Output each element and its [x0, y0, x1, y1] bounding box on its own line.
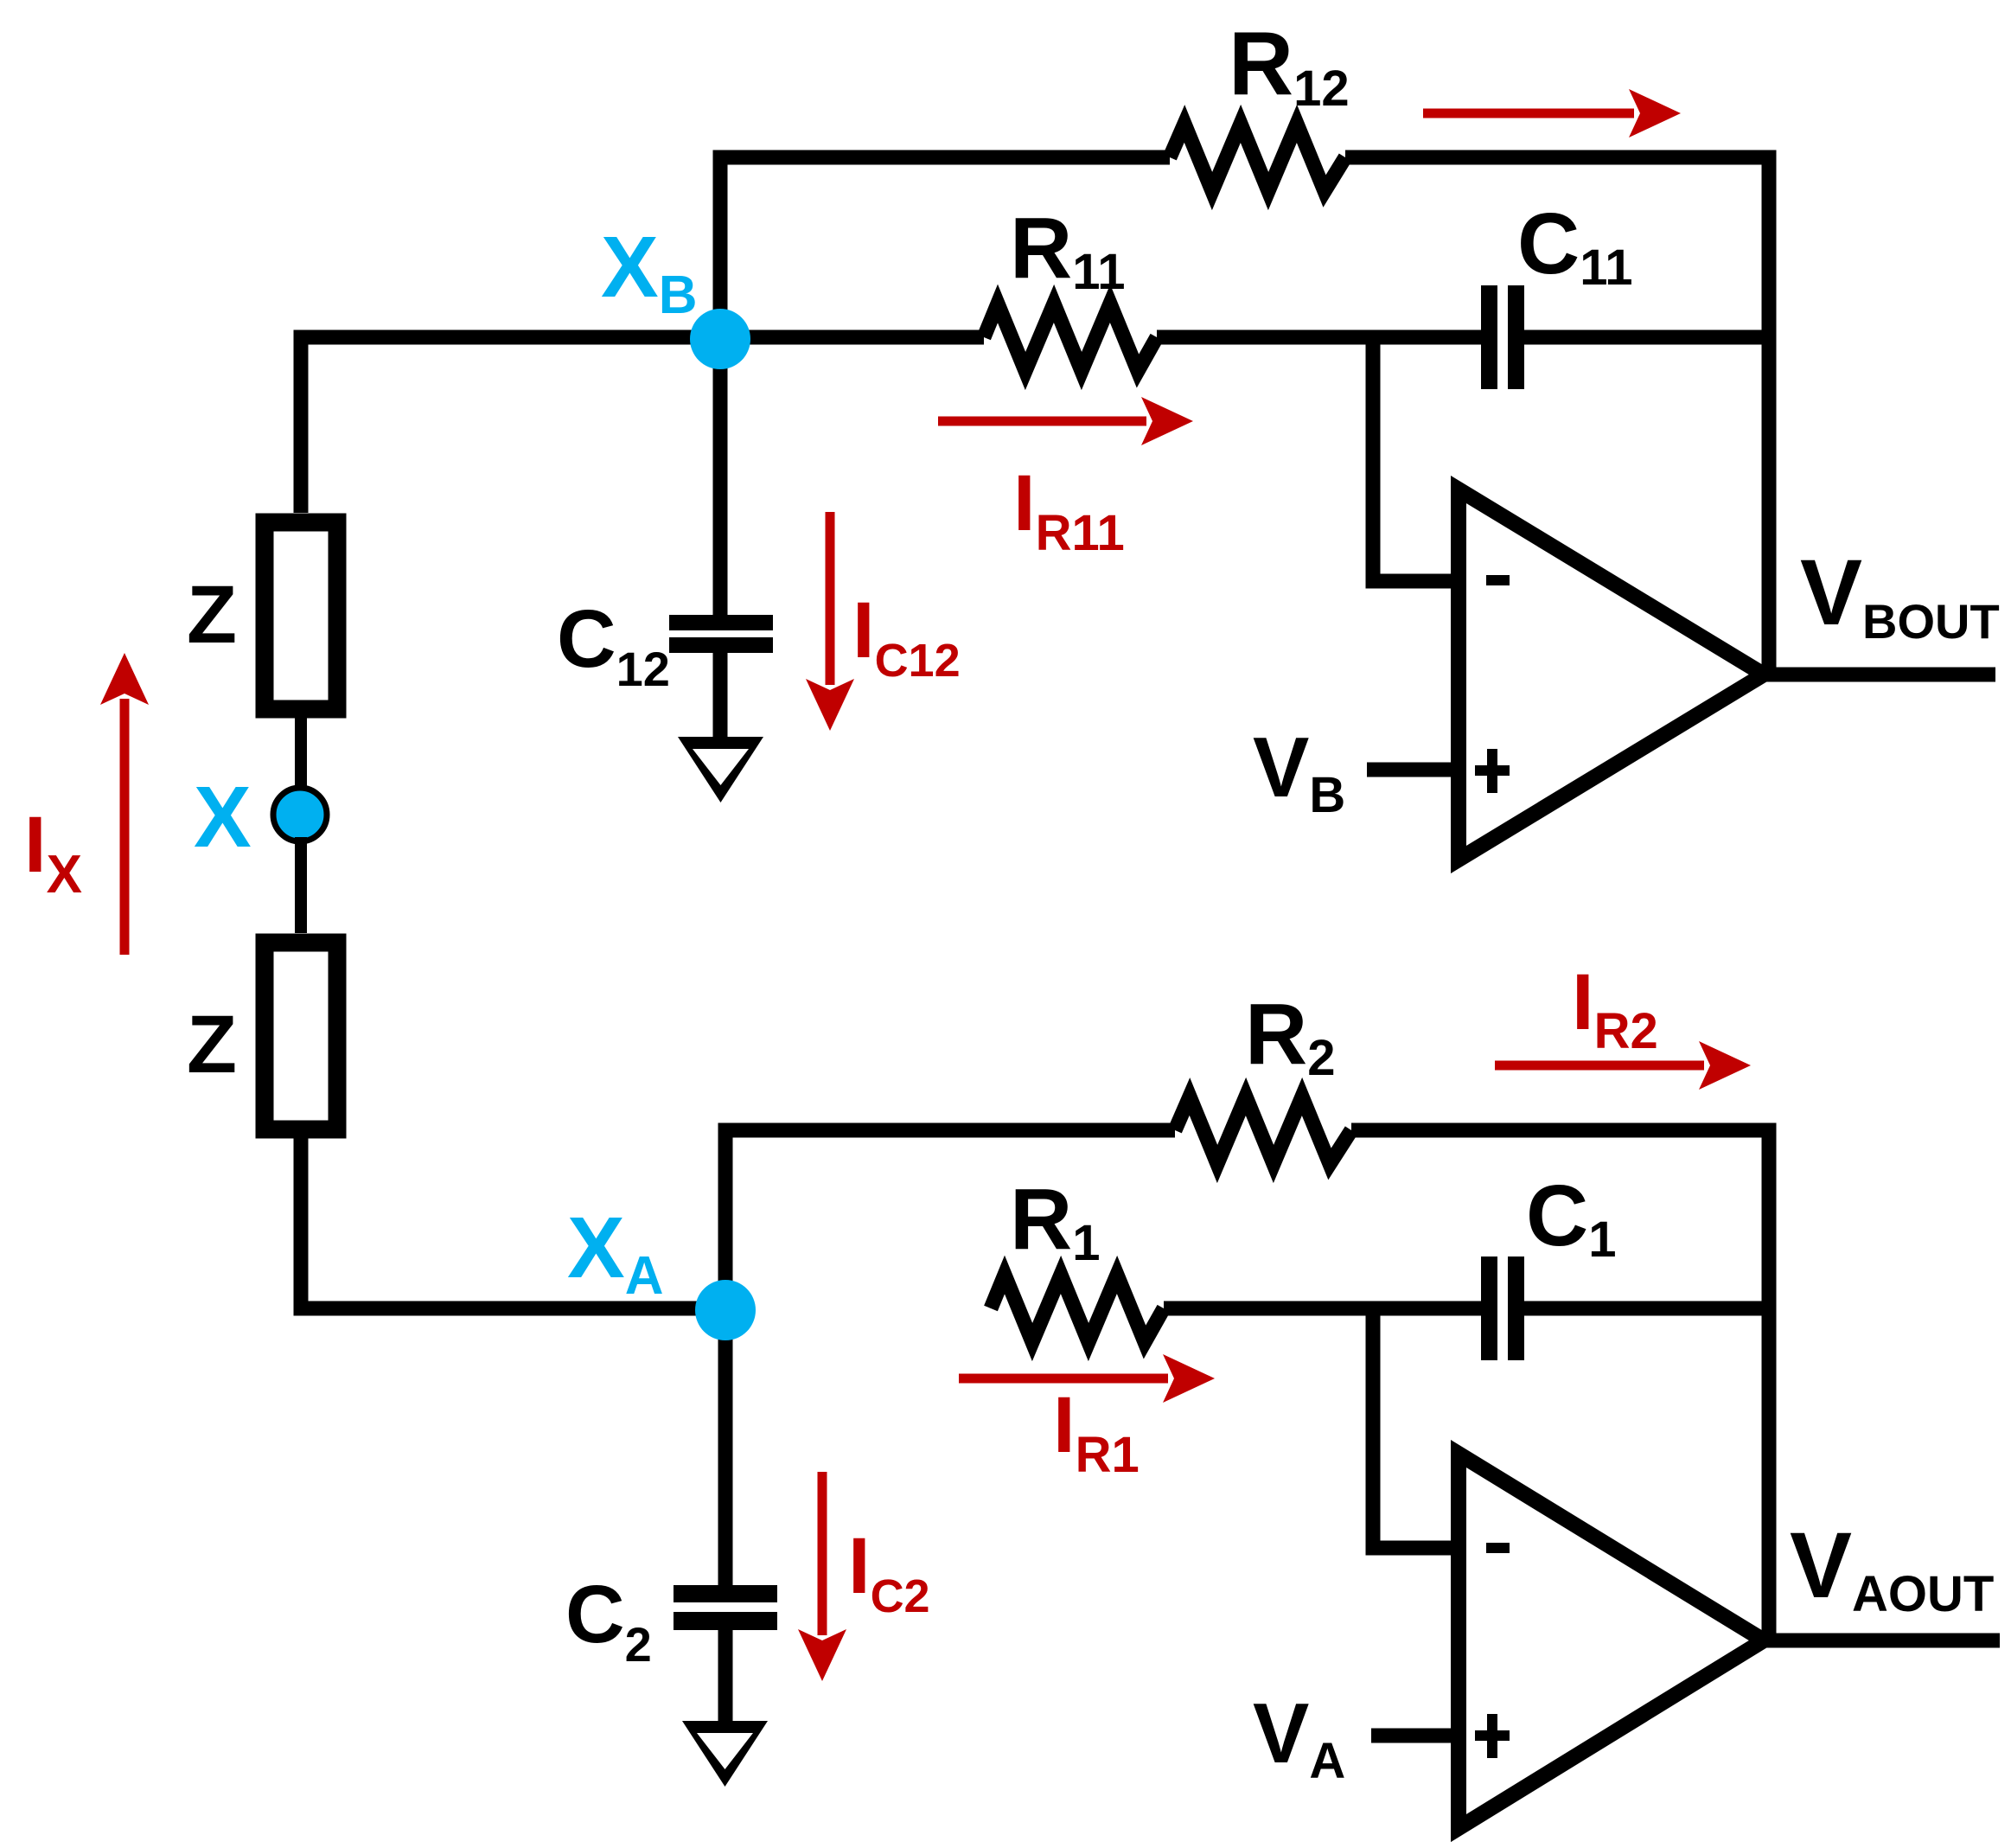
svg-text:Z: Z — [187, 569, 237, 661]
label C11 — [1517, 195, 1633, 296]
wire C1 to right rail — [1524, 1301, 1769, 1316]
svg-text:X: X — [194, 769, 252, 866]
label XB — [601, 219, 697, 325]
wire C2 to ground — [718, 1630, 733, 1726]
label VA — [1253, 1685, 1345, 1789]
wire VB to op-amp B non-inverting input — [1367, 763, 1459, 777]
current arrow IR2 — [1495, 1041, 1751, 1090]
current arrow IC12 — [806, 512, 854, 731]
label Z2 — [187, 999, 237, 1090]
wire C12 to ground — [713, 653, 728, 742]
wire XB down to C12 — [713, 337, 728, 615]
wire Z2 down and right to XA — [301, 1138, 725, 1308]
label C12 — [557, 593, 670, 696]
label X — [194, 769, 252, 866]
op-amp U2 (A) — [1459, 1454, 1764, 1828]
capacitor C1 — [1481, 1257, 1524, 1360]
current arrow IC2 — [798, 1472, 846, 1681]
label VAOUT — [1790, 1512, 1994, 1622]
op-amp B plus sign — [1475, 749, 1510, 793]
label R2 — [1245, 986, 1335, 1086]
op-amp A plus sign — [1475, 1714, 1510, 1758]
label IC12 — [852, 586, 961, 687]
current arrow top (feedback current) — [1423, 89, 1681, 137]
wire Z1 to node X — [295, 718, 307, 791]
ground below C12 — [678, 737, 763, 803]
wire R11 to C11 — [1157, 330, 1481, 345]
resistor R2 — [1175, 1097, 1351, 1164]
wire top rail from XB up and right to R12 — [720, 157, 1170, 344]
current arrow IR11 — [938, 397, 1193, 445]
wire VA to op-amp A non-inverting input — [1371, 1729, 1459, 1743]
impedance Z2 — [265, 943, 337, 1129]
label VB — [1253, 719, 1345, 823]
wire R1 to C1 — [1164, 1301, 1481, 1316]
op-amp B minus sign — [1486, 575, 1510, 585]
ground below C2 — [682, 1721, 768, 1787]
label R12 — [1229, 14, 1350, 117]
label IR2 — [1572, 958, 1658, 1059]
wire XB left to Z1 — [301, 337, 984, 513]
svg-text:Z: Z — [187, 999, 237, 1090]
label IR11 — [1013, 459, 1125, 561]
capacitor C2 — [674, 1585, 777, 1630]
resistor R12 — [1170, 124, 1345, 191]
current arrow IX — [100, 653, 149, 955]
resistor R11 — [984, 304, 1157, 371]
capacitor C12 — [669, 615, 773, 653]
label Z1 — [187, 569, 237, 661]
node X — [273, 788, 327, 841]
label XA — [567, 1199, 663, 1306]
label IX — [24, 801, 82, 905]
current arrow IR1 — [959, 1354, 1215, 1403]
label C1 — [1526, 1167, 1616, 1268]
wire C11 to right rail — [1524, 330, 1769, 345]
wire top rail right of R12 down right side to op-amp B output — [1345, 157, 1769, 675]
label VBOUT — [1800, 540, 2000, 649]
wire XA down to C2 — [718, 1308, 733, 1585]
op-amp U1 (B) — [1459, 489, 1764, 860]
impedance Z1 — [265, 522, 337, 709]
wire to op-amp B inverting input — [1373, 337, 1459, 581]
label R11 — [1010, 200, 1126, 300]
resistor R1 — [991, 1275, 1164, 1342]
label R1 — [1010, 1171, 1100, 1271]
wire right of R2 down right side to op-amp A output — [1351, 1130, 1769, 1640]
node XA — [695, 1280, 756, 1340]
wire op-amp A output — [1764, 1634, 2000, 1648]
node XB — [690, 309, 750, 369]
wire op-amp B output — [1764, 668, 1995, 682]
wire X to Z2 — [295, 837, 307, 933]
label C2 — [565, 1569, 652, 1672]
label IC2 — [848, 1522, 930, 1622]
op-amp A minus sign — [1486, 1543, 1510, 1553]
label IR1 — [1053, 1381, 1140, 1483]
wire XA up and right to R2 — [725, 1130, 1175, 1308]
wire to op-amp A inverting input — [1373, 1308, 1459, 1548]
capacitor C11 — [1481, 285, 1524, 389]
